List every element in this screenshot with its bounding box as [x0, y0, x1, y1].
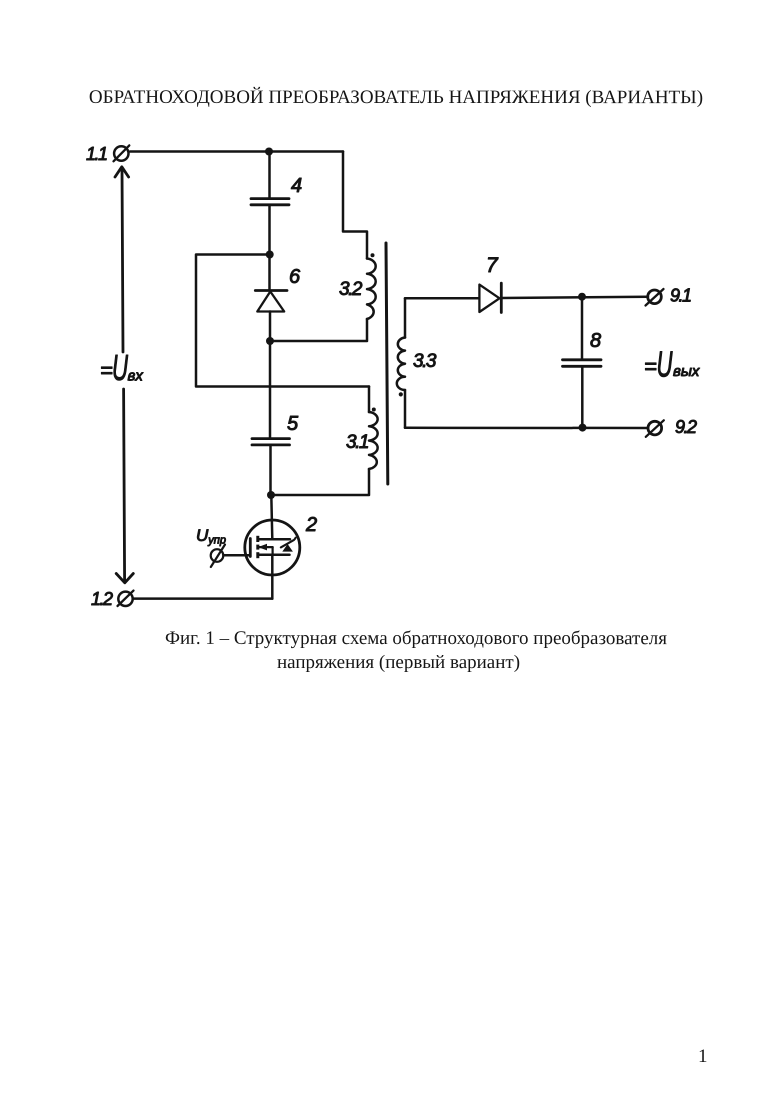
capacitor 5 [252, 439, 290, 445]
winding 3.3 [397, 338, 405, 391]
title [86, 87, 706, 109]
svg-text:2: 2 [305, 514, 317, 536]
capacitor 4 [251, 199, 289, 205]
svg-text:9.1: 9.1 [670, 286, 691, 306]
wire left branch [196, 255, 369, 387]
wire top rail [130, 150, 343, 153]
transistor drain bar [258, 538, 290, 541]
svg-text:3.1: 3.1 [346, 432, 368, 453]
wire node B down to cap5 [269, 341, 272, 438]
transistor Q2 circle [245, 520, 300, 575]
gate terminal [211, 545, 225, 568]
svg-text:Uупр: Uупр [196, 526, 226, 547]
terminal 1.2 [118, 591, 134, 606]
page number [698, 1046, 708, 1068]
wire cap4 top lead [268, 152, 271, 199]
transistor body arrow [258, 544, 273, 555]
wire drain lead [271, 495, 272, 539]
node junction bottom secondary [579, 424, 587, 432]
input voltage arrow line [122, 168, 125, 582]
svg-text:1.1: 1.1 [86, 144, 107, 164]
winding 3.1 lead top [368, 387, 371, 413]
transistor gate bar [249, 539, 252, 557]
svg-text:9.2: 9.2 [675, 417, 697, 437]
wire node B to winding 3.2 [270, 319, 367, 341]
polarity dot 3.1 [372, 408, 376, 412]
caption line 1 [165, 628, 667, 650]
winding 3.3 lead top [404, 298, 407, 337]
svg-text:U: U [657, 344, 674, 385]
node C junction [267, 491, 275, 499]
wire secondary bottom rail [405, 427, 648, 430]
node junction top secondary [578, 293, 586, 301]
svg-text:4: 4 [291, 175, 302, 197]
terminal 1.1 [114, 145, 130, 161]
node A junction [266, 251, 274, 259]
polarity dot 3.3 [399, 392, 403, 396]
transistor channel segments [256, 536, 259, 558]
winding 3.3 lead bottom [404, 390, 407, 428]
arrow head up [115, 167, 129, 177]
svg-text:6: 6 [289, 266, 301, 288]
arrow head down [116, 574, 133, 583]
transistor body diode [281, 538, 296, 552]
svg-text:5: 5 [287, 413, 299, 435]
terminal 9.2 [646, 420, 664, 437]
transistor source bar [258, 553, 290, 556]
svg-text:7: 7 [486, 254, 499, 277]
diode 7 [479, 283, 501, 312]
node B junction [266, 337, 274, 345]
caption line 2 [277, 652, 517, 674]
winding 3.1 [369, 412, 378, 469]
wire secondary top rail right [501, 297, 648, 298]
svg-text:8: 8 [590, 330, 601, 352]
wire bottom rail [134, 597, 273, 600]
terminal 9.1 [646, 289, 664, 306]
svg-text:вых: вых [673, 363, 700, 380]
svg-text:3.3: 3.3 [413, 351, 437, 372]
wire cap4 to diode6 [268, 205, 271, 290]
wire gate lead [224, 554, 251, 557]
capacitor 8 [563, 360, 602, 367]
svg-text:3.2: 3.2 [339, 279, 363, 300]
wire source lead [271, 555, 274, 599]
wire diode6 to node B [269, 312, 272, 342]
node junction top [265, 148, 273, 156]
wire primary top step [343, 152, 367, 259]
wire cap8 bottom lead [581, 367, 584, 428]
transformer core [386, 243, 388, 484]
winding 3.2 [367, 259, 376, 320]
svg-text:=: = [644, 354, 657, 379]
polarity dot 3.2 [371, 253, 375, 257]
diode 6 [255, 291, 287, 312]
svg-text:1.2: 1.2 [91, 589, 113, 609]
wire secondary top rail left [405, 297, 479, 300]
wire cap8 top lead [581, 297, 584, 359]
svg-text:U: U [112, 347, 129, 388]
svg-text:вх: вх [128, 368, 144, 385]
wire node C to winding 3.1 [271, 469, 369, 495]
wire cap5 to node C [269, 445, 272, 495]
